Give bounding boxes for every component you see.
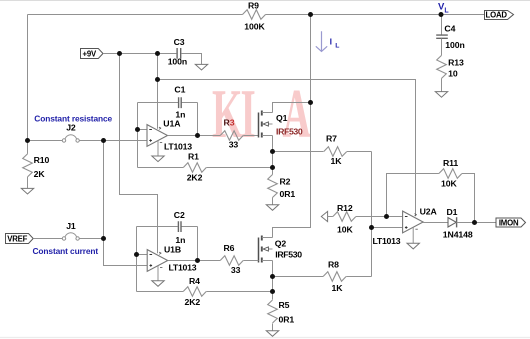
- resistor R1: [183, 163, 206, 173]
- svg-text:100K: 100K: [244, 22, 265, 32]
- wire C3 to ground: [181, 54, 201, 65]
- svg-text:C2: C2: [174, 210, 185, 220]
- svg-text:R9: R9: [248, 0, 259, 10]
- wire R12 run: [328, 216, 387, 218]
- svg-text:2K: 2K: [34, 169, 46, 179]
- ground R5: [266, 331, 278, 337]
- wire U2A output: [423, 222, 448, 224]
- wire Q2 drain: [272, 228, 274, 238]
- svg-text:Constant current: Constant current: [33, 246, 99, 256]
- svg-text:R10: R10: [34, 155, 50, 165]
- svg-text:IMON: IMON: [499, 218, 519, 227]
- svg-text:R2: R2: [280, 176, 291, 186]
- ground U1B: [152, 281, 164, 287]
- wire U2A power feed: [158, 80, 416, 217]
- wire U2A inverting input: [387, 216, 403, 218]
- wire U1B feedback box: [137, 227, 198, 292]
- op-amp U2A: [403, 211, 424, 233]
- page bottom divider: [0, 337, 530, 339]
- wire U1A inverting input: [138, 129, 148, 131]
- flag LOAD: [485, 11, 514, 20]
- svg-text:R3: R3: [224, 117, 235, 127]
- wire R7 run: [273, 151, 372, 153]
- svg-text:Q1: Q1: [276, 113, 288, 123]
- svg-text:1n: 1n: [175, 235, 185, 245]
- svg-text:100n: 100n: [168, 57, 187, 67]
- svg-text:U2A: U2A: [420, 206, 438, 216]
- svg-text:0R1: 0R1: [280, 189, 296, 199]
- wire U1B output: [168, 260, 221, 262]
- resistor R12: [333, 212, 356, 222]
- svg-text:R11: R11: [443, 158, 458, 168]
- capacitor C3: [177, 48, 181, 59]
- svg-text:R8: R8: [328, 260, 339, 270]
- wire sense vertical: [371, 152, 373, 277]
- svg-text:R5: R5: [279, 300, 290, 310]
- svg-text:L: L: [444, 8, 449, 15]
- transistor Q1: [258, 113, 260, 138]
- flag +9V: [81, 49, 104, 59]
- ground R13: [435, 92, 447, 98]
- resistor R3: [220, 131, 243, 141]
- svg-text:Q2: Q2: [275, 239, 287, 249]
- wire Q1 drain: [273, 103, 311, 113]
- current arrow IL: [316, 31, 327, 51]
- wire +9V to C3: [103, 53, 176, 55]
- svg-text:1K: 1K: [331, 156, 343, 166]
- watermark KIA: [212, 75, 311, 153]
- wire R8 run: [273, 276, 372, 278]
- svg-text:33: 33: [229, 139, 239, 149]
- ground U2A: [407, 243, 419, 249]
- svg-text:10: 10: [448, 68, 458, 78]
- svg-text:R12: R12: [337, 203, 353, 213]
- wire J2 to U1A+: [79, 140, 147, 142]
- svg-text:IRF530: IRF530: [275, 249, 302, 259]
- svg-text:C1: C1: [174, 85, 185, 95]
- svg-text:10K: 10K: [337, 224, 353, 234]
- resistor R4: [183, 287, 206, 297]
- wire U1B ground stub: [157, 266, 159, 281]
- svg-text:2K2: 2K2: [187, 173, 203, 183]
- capacitor C1: [179, 97, 182, 108]
- svg-text:R7: R7: [326, 134, 337, 144]
- wire U1A output: [168, 135, 221, 137]
- svg-text:I: I: [241, 75, 256, 153]
- op-amp U1A: [147, 125, 168, 147]
- svg-text:VREF: VREF: [7, 234, 27, 243]
- wire drain bus vertical: [273, 15, 311, 238]
- resistor R11: [439, 169, 462, 179]
- wire J1 to node: [79, 238, 103, 240]
- wire R6 to Q2 gate: [243, 260, 258, 262]
- svg-text:D1: D1: [447, 207, 458, 217]
- ground R10: [21, 188, 33, 194]
- ground C3: [195, 64, 207, 70]
- svg-text:33: 33: [231, 265, 241, 275]
- wire left drop: [27, 15, 29, 141]
- svg-text:+9V: +9V: [83, 49, 97, 58]
- capacitor C2: [178, 221, 181, 232]
- wire U2A non-inverting input: [372, 227, 403, 229]
- svg-text:R1: R1: [188, 151, 199, 161]
- svg-text:1K: 1K: [332, 283, 344, 293]
- flag IMON: [496, 218, 526, 227]
- resistor R6: [220, 256, 243, 266]
- svg-text:L: L: [335, 42, 339, 49]
- wire U1A power feed: [157, 54, 159, 129]
- svg-text:R4: R4: [189, 276, 200, 286]
- resistor R5: [268, 300, 278, 323]
- flag VREF: [6, 234, 34, 244]
- resistor R9: [243, 10, 266, 20]
- wire D1 to IMON: [457, 222, 496, 224]
- op-amp U1B: [147, 250, 168, 272]
- resistor R2: [268, 175, 278, 198]
- wire R4 from U1B- to Q2 source: [137, 291, 273, 293]
- svg-text:IRF530: IRF530: [276, 126, 303, 136]
- resistor R13: [441, 39, 443, 56]
- wire top rail: [28, 14, 485, 16]
- svg-text:2K2: 2K2: [185, 297, 201, 307]
- transistor Q2: [258, 238, 260, 263]
- svg-text:R13: R13: [448, 57, 464, 67]
- svg-text:1N4148: 1N4148: [443, 230, 473, 240]
- wire U1A ground stub: [157, 141, 159, 156]
- wire U2A ground stub: [412, 227, 414, 243]
- svg-text:LOAD: LOAD: [486, 11, 508, 20]
- svg-text:10K: 10K: [441, 179, 457, 189]
- resistor R7: [324, 147, 347, 157]
- junction dots: [117, 51, 122, 56]
- wire U2A feedback loop: [387, 174, 475, 223]
- resistor R8: [323, 272, 346, 282]
- svg-text:LT1013: LT1013: [373, 236, 401, 246]
- svg-text:C3: C3: [174, 37, 185, 47]
- svg-text:J1: J1: [66, 221, 76, 231]
- wire Q2 source down: [272, 261, 274, 300]
- wire U1B inverting input: [137, 254, 148, 256]
- svg-text:J2: J2: [66, 122, 76, 132]
- pointer arrow R12: [321, 211, 327, 221]
- svg-text:U1A: U1A: [163, 119, 181, 129]
- svg-text:100n: 100n: [445, 40, 464, 50]
- svg-text:0R1: 0R1: [279, 314, 295, 324]
- wire R3 to Q1 gate: [243, 135, 258, 137]
- resistor R10: [27, 141, 29, 154]
- ground U1A: [152, 156, 164, 162]
- wire +9V rail down to U1B power: [120, 54, 158, 254]
- page top border: [0, 0, 530, 2]
- svg-text:C4: C4: [444, 24, 455, 34]
- wire R1 from U1A- to Q1 source: [138, 167, 273, 169]
- svg-text:U1B: U1B: [164, 245, 181, 255]
- svg-text:LT1013: LT1013: [164, 141, 192, 151]
- wire J2-J1 link: [104, 141, 148, 266]
- wire U1A feedback box: [138, 103, 198, 168]
- wire Q1 source down: [272, 136, 274, 175]
- svg-text:LT1013: LT1013: [169, 263, 197, 273]
- svg-text:R6: R6: [224, 243, 235, 253]
- svg-text:I: I: [330, 36, 332, 46]
- capacitor C4: [441, 15, 443, 35]
- ground R2: [266, 205, 278, 211]
- diode D1: [448, 218, 456, 227]
